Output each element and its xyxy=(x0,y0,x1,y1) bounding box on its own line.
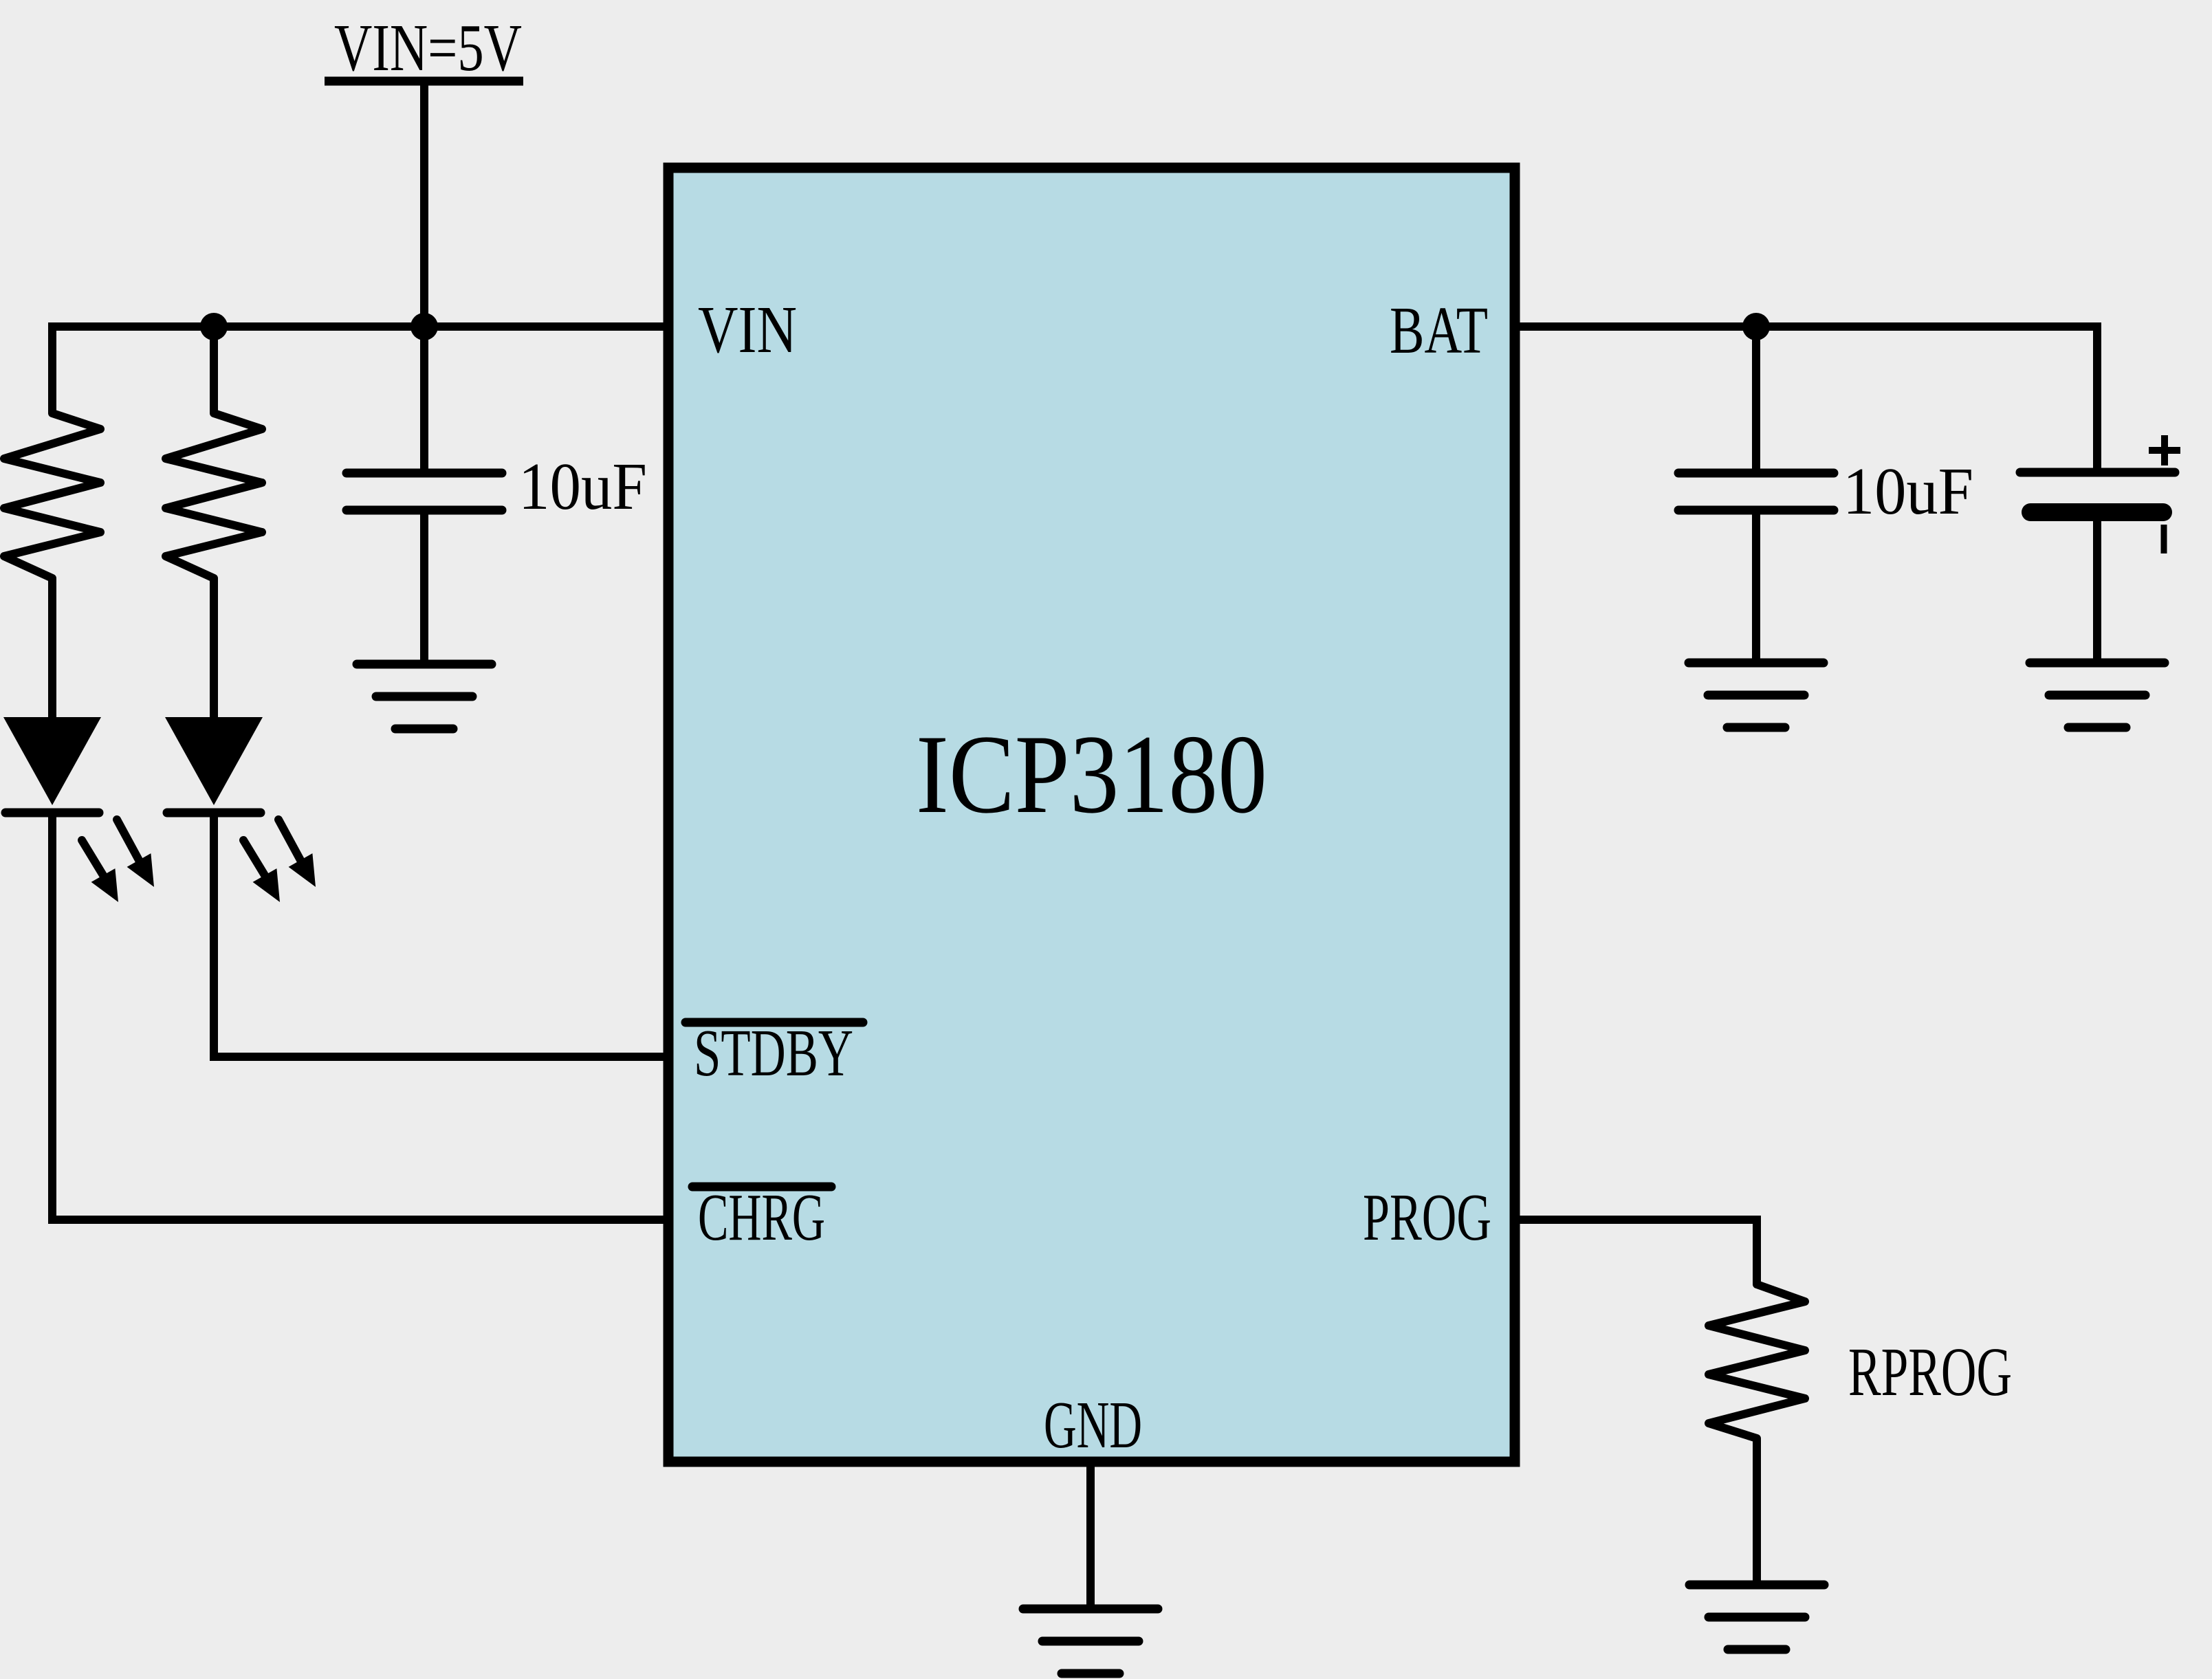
svg-text:ICP3180: ICP3180 xyxy=(916,712,1267,837)
svg-text:GND: GND xyxy=(1044,1388,1142,1462)
wire VIN tap down to capacitor C1 xyxy=(420,327,428,473)
node junction dot (branch R2) xyxy=(200,313,228,340)
svg-text:10uF: 10uF xyxy=(1843,454,1973,529)
svg-text:VIN=5V: VIN=5V xyxy=(334,11,522,85)
svg-text:STDBY: STDBY xyxy=(694,1016,853,1090)
ground (GND) xyxy=(1023,1609,1158,1673)
wire BAT corner down to battery BT1 xyxy=(2093,322,2101,472)
capacitor C1 xyxy=(347,473,502,510)
wire RPROG to ground xyxy=(1753,1438,1761,1585)
svg-text:VIN: VIN xyxy=(698,293,797,367)
LED D2 xyxy=(165,717,316,902)
wire D1 down and right to CHRG pin xyxy=(52,813,668,1220)
net label VIN=5V xyxy=(334,11,522,85)
wire GND pin down to ground xyxy=(1086,1462,1095,1609)
wire R2 to LED D2 xyxy=(210,578,218,721)
ground (C2) xyxy=(1689,663,1824,727)
wire BT1 to ground xyxy=(2093,512,2101,663)
pin label BAT xyxy=(1390,294,1488,368)
value label RPROG xyxy=(1848,1333,2012,1410)
svg-text:CHRG: CHRG xyxy=(698,1181,825,1255)
battery plus sign xyxy=(2149,435,2180,465)
wire R1 to LED D1 xyxy=(48,578,56,721)
pin label VIN xyxy=(698,293,797,367)
value label 10uF (C1) xyxy=(518,450,647,524)
pin label PROG xyxy=(1363,1181,1491,1255)
battery BT1 xyxy=(2020,472,2175,512)
op-amp U1 ICP3180 body xyxy=(668,168,1515,1462)
wire BAT tap down to capacitor C2 xyxy=(1752,327,1760,473)
wire VIN to resistor R1 xyxy=(48,322,56,413)
pin label STDBY with overline xyxy=(686,1016,863,1090)
wire VIN net horizontal (left rail to IC VIN pin) xyxy=(48,322,668,331)
capacitor C2 xyxy=(1678,473,1834,510)
svg-text:BAT: BAT xyxy=(1390,294,1488,368)
ground (RPROG) xyxy=(1689,1585,1824,1649)
resistor R2 xyxy=(166,413,262,578)
value label 10uF (C2) xyxy=(1843,454,1973,529)
wire from VIN=5V rail down to VIN net xyxy=(420,81,428,327)
ground (BT1) xyxy=(2030,663,2165,727)
svg-text:RPROG: RPROG xyxy=(1848,1333,2012,1410)
wire BAT pin to battery xyxy=(1515,322,2097,331)
wire PROG pin to resistor RPROG xyxy=(1515,1220,1757,1284)
svg-text:10uF: 10uF xyxy=(518,450,647,524)
wire C2 to ground xyxy=(1752,510,1760,663)
pin label CHRG with overline xyxy=(692,1181,831,1255)
pin label GND xyxy=(1044,1388,1142,1462)
wire D2 down and right to STDBY pin xyxy=(214,813,668,1057)
ground (C1) xyxy=(357,664,492,729)
battery minus sign xyxy=(2161,525,2167,553)
resistor RPROG xyxy=(1709,1284,1805,1438)
wire C1 to ground xyxy=(420,510,428,664)
svg-text:PROG: PROG xyxy=(1363,1181,1491,1255)
power rail bar VIN=5V xyxy=(325,77,523,86)
node junction dot (C2 tap) xyxy=(1742,313,1770,340)
node junction dot (VIN=5V / C1 tap) xyxy=(410,313,438,340)
LED D1 xyxy=(3,717,154,902)
wire VIN to resistor R2 xyxy=(210,327,218,413)
resistor R1 xyxy=(4,413,100,578)
